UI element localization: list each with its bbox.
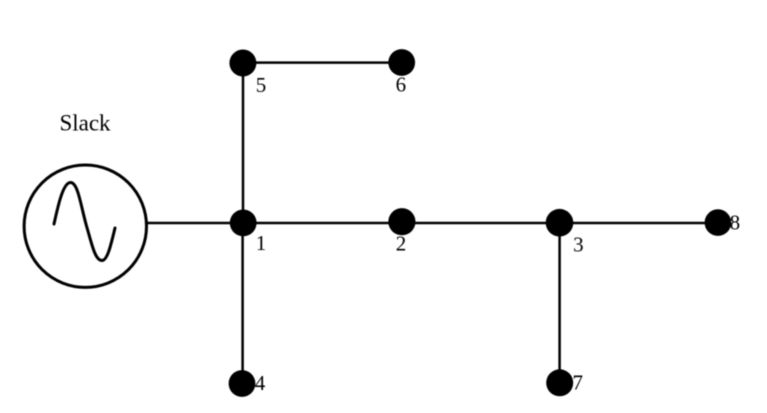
wire node 1 to node 4 <box>241 223 244 384</box>
node 8 <box>705 209 741 236</box>
node 5 <box>229 50 266 98</box>
ac source G1 (slack generator) <box>24 165 146 287</box>
svg-text:Slack: Slack <box>59 111 111 136</box>
svg-text:3: 3 <box>573 233 584 257</box>
wire node 2 to node 3 <box>402 222 560 225</box>
node 4 <box>229 370 266 397</box>
node 2 <box>388 208 415 256</box>
svg-text:7: 7 <box>572 371 583 395</box>
node 3 <box>546 209 584 257</box>
wire node 1 to node 2 <box>243 222 402 225</box>
wire node 5 to node 1 <box>242 63 245 223</box>
wire node 3 to node 7 <box>558 223 561 383</box>
wire node 5 to node 6 <box>243 61 402 64</box>
label Slack <box>59 111 111 136</box>
svg-text:4: 4 <box>255 371 266 395</box>
node 6 <box>388 49 415 96</box>
node 1 <box>230 210 266 256</box>
wire slack source to node 1 <box>146 222 243 225</box>
svg-text:5: 5 <box>256 73 267 97</box>
svg-text:8: 8 <box>730 211 741 235</box>
svg-text:2: 2 <box>396 232 407 256</box>
svg-text:6: 6 <box>396 73 407 97</box>
svg-text:1: 1 <box>256 231 267 255</box>
node 7 <box>546 369 583 396</box>
wire node 3 to node 8 <box>560 222 719 225</box>
